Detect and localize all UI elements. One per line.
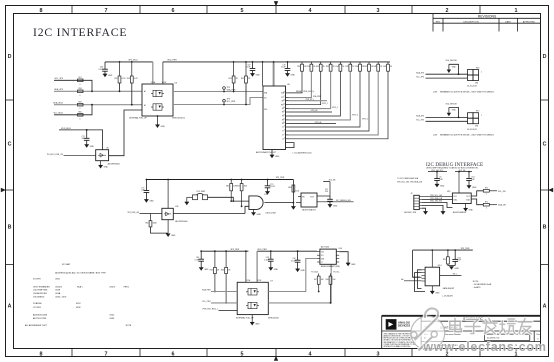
svg-text:0.1UF: 0.1UF	[246, 67, 251, 69]
svg-text:GND: GND	[90, 146, 95, 148]
svg-text:0: 0	[486, 207, 487, 209]
svg-text:SCL_3P3: SCL_3P3	[416, 76, 424, 78]
watermark chinese char 2	[467, 318, 479, 321]
svg-text:VCCB: VCCB	[257, 280, 261, 282]
wire wB gray	[211, 302, 237, 304]
svg-text:ADCMP600LE: ADCMP600LE	[175, 220, 188, 223]
svg-text:U8 IO EXPANDER: U8 IO EXPANDER	[33, 285, 50, 288]
svg-text:R53: R53	[127, 78, 130, 80]
resistor R54 pullup	[233, 62, 235, 76]
resistor R62	[230, 180, 232, 184]
resistor R38 pullup with staircase wire	[377, 62, 379, 64]
ground below C71	[144, 200, 148, 203]
wire P16 pin1	[426, 73, 468, 75]
wire P17 pin2	[426, 120, 468, 122]
wire rail4 to U7 VCCA	[245, 251, 247, 282]
svg-text:GND: GND	[452, 66, 457, 68]
capacitor C49	[200, 251, 202, 259]
svg-text:GND: GND	[452, 110, 457, 112]
svg-text:0X4F: 0X4F	[110, 318, 116, 320]
svg-text:SDA_3P3: SDA_3P3	[416, 71, 424, 74]
svg-text:R55: R55	[241, 78, 244, 80]
capacitor C67	[252, 62, 254, 69]
ground below C49	[199, 268, 203, 271]
and gate U12	[249, 196, 263, 210]
svg-text:SDA_PER: SDA_PER	[227, 89, 236, 92]
wire rail5 to U7 VCCB gray	[256, 251, 258, 282]
capacitor C73	[267, 180, 269, 186]
power arrow P16	[449, 64, 459, 74]
svg-text:R67: R67	[314, 279, 317, 281]
svg-text:NTB0102GD: NTB0102GD	[268, 318, 279, 320]
sheet zone tick marks left/right	[6, 99, 14, 101]
svg-text:PER_INT_L: PER_INT_L	[306, 99, 315, 101]
svg-text:2: 2	[446, 8, 449, 14]
svg-text:DNI: DNI	[475, 83, 479, 85]
svg-text:SCL2: SCL2	[466, 196, 470, 198]
svg-text:3P3_PER: 3P3_PER	[461, 248, 470, 250]
wire U8 pin9	[289, 123, 337, 125]
svg-text:SCL_PER: SCL_PER	[202, 301, 211, 303]
svg-text:<- I2C ADDR: <- I2C ADDR	[442, 294, 454, 297]
svg-text:GPIO_5: GPIO_5	[362, 118, 368, 120]
ground below C47	[328, 205, 332, 208]
ground below C67	[250, 74, 254, 77]
wire rail2 to U8 VDD1	[262, 62, 264, 86]
resistor R58	[78, 90, 84, 93]
svg-text:PG_MCU_PER_ON: PG_MCU_PER_ON	[47, 154, 64, 156]
svg-text:SCL_3P3: SCL_3P3	[54, 78, 63, 80]
svg-text:7: 7	[105, 351, 108, 357]
svg-text:1UF: 1UF	[141, 190, 144, 192]
svg-text:DESCRIPTION: DESCRIPTION	[464, 21, 479, 23]
svg-text:0X30 - 0X37: 0X30 - 0X37	[55, 296, 67, 298]
svg-text:3: 3	[377, 8, 380, 14]
svg-text:D: D	[543, 54, 547, 60]
svg-text:ADM1032ARMZ (DNI): ADM1032ARMZ (DNI)	[321, 265, 340, 268]
wire rail3 drop to U13	[292, 180, 294, 207]
temp sensor U10	[320, 249, 336, 264]
resistor R35 pullup with staircase wire	[349, 62, 351, 64]
capacitor C50	[297, 251, 299, 260]
wire w3 SCL gray	[54, 104, 142, 106]
svg-text:3P3_PER: 3P3_PER	[230, 249, 239, 251]
svg-text:GND: GND	[274, 269, 279, 271]
svg-text:0: 0	[80, 84, 81, 86]
svg-text:TWI_SCL_DB, TWI_SDA_DB: TWI_SCL_DB, TWI_SDA_DB	[397, 181, 423, 184]
svg-text:GND: GND	[469, 210, 474, 212]
svg-text:R65: R65	[210, 269, 213, 271]
wire rail1 to U6 VCCA	[152, 62, 154, 84]
watermark diagonal stroke 2	[419, 336, 434, 351]
wire rail6 left drop	[413, 250, 420, 277]
svg-text:6: 6	[172, 351, 175, 357]
ground below C52	[467, 186, 471, 189]
wire to U15 vdd gray	[458, 172, 460, 193]
wire U5 output	[109, 110, 142, 156]
wire U8 pin3	[289, 100, 328, 102]
svg-text:GND: GND	[333, 206, 338, 208]
svg-text:RESET_PER_MCU_L: RESET_PER_MCU_L	[296, 91, 315, 93]
header P17	[468, 113, 474, 119]
svg-text:R54: R54	[228, 78, 231, 80]
svg-text:10-31-2013: 10-31-2013	[467, 129, 477, 131]
watermark chinese char 3	[483, 321, 497, 324]
wire J2 pin2	[422, 199, 453, 201]
svg-text:P17: P17	[476, 111, 479, 113]
title block doc box	[484, 334, 529, 340]
capacitor C66	[104, 62, 106, 69]
svg-text:R60: R60	[78, 112, 81, 114]
wire w5 SDA_PER gray	[173, 91, 263, 93]
ground right of U10	[346, 263, 350, 266]
wire w4	[54, 105, 92, 115]
io expander U8	[263, 86, 286, 150]
svg-text:LTC4311: LTC4311	[33, 307, 42, 309]
svg-text:A: A	[8, 304, 12, 310]
svg-text:10-31-2013: 10-31-2013	[467, 86, 477, 88]
ground below rail drop	[291, 207, 295, 210]
svg-text:5: 5	[241, 351, 244, 357]
sheet center arrow bottom	[274, 356, 278, 361]
svg-text:SCL_DB: SCL_DB	[498, 191, 506, 193]
svg-text:100K: 100K	[153, 223, 158, 225]
resistor R67 pullup	[318, 284, 320, 291]
svg-text:GND: GND	[301, 270, 306, 272]
svg-text:VDD_DB_3V3: VDD_DB_3V3	[430, 201, 442, 203]
svg-text:DNI: DNI	[475, 126, 479, 128]
U5 ground pin	[100, 161, 102, 166]
wire wC	[219, 309, 238, 311]
svg-text:U10 TEMP SNS: U10 TEMP SNS	[33, 290, 48, 292]
svg-text:VDD_PER: VDD_PER	[257, 249, 267, 251]
svg-text:- 0x4B76: - 0x4B76	[473, 287, 481, 289]
svg-text:GND: GND	[291, 75, 296, 77]
wire wA gray	[211, 291, 237, 293]
resistor R52 pullup	[119, 62, 121, 76]
svg-text:Document Number: Document Number	[445, 333, 461, 336]
svg-text:SCL_PER: SCL_PER	[227, 101, 236, 103]
svg-text:R39: R39	[383, 66, 386, 68]
svg-text:C: C	[8, 142, 12, 148]
resistor R37 pullup with staircase wire	[368, 62, 370, 64]
svg-text:1UF: 1UF	[81, 138, 84, 140]
svg-text:INTERNAL PULL UP: INTERNAL PULL UP	[129, 116, 147, 119]
svg-text:NOTE:: NOTE:	[473, 281, 479, 283]
svg-text:R36: R36	[355, 66, 358, 68]
svg-text:GND: GND	[161, 126, 166, 128]
svg-text:PU_SCL: PU_SCL	[333, 271, 339, 273]
svg-text:R4: R4	[282, 123, 284, 125]
capacitor C71	[145, 180, 147, 191]
wire U14 output	[440, 275, 462, 277]
svg-text:R34: R34	[336, 66, 339, 68]
svg-text:GEODE 5 PIN: GEODE 5 PIN	[404, 212, 417, 214]
watermark chinese char 5	[518, 320, 532, 323]
svg-text:I2C INTERFACE: I2C INTERFACE	[33, 26, 127, 39]
junction on w2	[91, 90, 93, 92]
svg-text:R62: R62	[226, 186, 229, 188]
svg-text:GND: GND	[104, 167, 109, 169]
svg-text:3P3_PER: 3P3_PER	[276, 177, 285, 179]
svg-text:NOTE: NOTE	[126, 325, 132, 327]
wire U8 pin6	[289, 111, 333, 113]
ground below C66	[103, 74, 107, 77]
svg-text:GND: GND	[171, 235, 176, 237]
svg-text:SCL: SCL	[264, 97, 267, 99]
U8 ground pin	[271, 150, 273, 156]
wire P17 pin1	[426, 116, 468, 118]
sheet center arrow right	[548, 188, 553, 192]
svg-text:REV: REV	[436, 21, 441, 23]
svg-text:ALL ADDRESSES 7-BIT: ALL ADDRESSES 7-BIT	[25, 324, 47, 327]
wire U15 out1	[471, 191, 483, 196]
svg-text:I2C_DEBUG_EN: I2C_DEBUG_EN	[336, 200, 351, 202]
resistor R33 pullup with staircase wire	[330, 62, 332, 64]
svg-text:GND: GND	[275, 156, 280, 158]
svg-text:C3: C3	[282, 138, 284, 140]
capacitor C72	[86, 130, 88, 138]
svg-text:0X58: 0X58	[55, 279, 59, 281]
wire rail3 to U11	[167, 180, 169, 209]
svg-text:7: 7	[105, 8, 108, 14]
wire J2 pin1	[422, 196, 453, 198]
svg-text:SDA_PER: SDA_PER	[202, 289, 211, 292]
address selector U14	[425, 267, 440, 286]
U7 ground pin	[251, 315, 253, 323]
watermark diagonal stroke	[415, 319, 437, 341]
ground left of R15	[185, 202, 189, 205]
svg-text:R63: R63	[236, 186, 239, 188]
debug level shifter U15	[452, 193, 471, 204]
resistor R57	[78, 79, 84, 82]
svg-text:- I2C ADDRESS 0x4B: - I2C ADDRESS 0x4B	[473, 283, 492, 286]
comparator U11	[162, 208, 173, 219]
svg-text:0.1UF: 0.1UF	[281, 67, 286, 69]
U8 jumper loop	[286, 143, 295, 148]
svg-text:R52: R52	[114, 78, 117, 80]
sheet center arrow left	[1, 188, 6, 192]
watermark note flag	[425, 308, 438, 320]
svg-text:0X0 B: 0X0 B	[110, 286, 116, 288]
wire J2 pin4	[422, 205, 443, 211]
title block frame	[382, 315, 541, 317]
wire w1	[54, 80, 92, 91]
svg-text:R1: R1	[282, 112, 284, 114]
ground J2 pin4	[441, 212, 445, 215]
header P16	[468, 70, 474, 76]
svg-text:ADT7420: ADT7420	[321, 246, 329, 249]
svg-text:D: D	[8, 54, 12, 60]
svg-text:SCL_3P3: SCL_3P3	[416, 120, 424, 122]
svg-text:TWI_SCL_DB: TWI_SCL_DB	[430, 195, 443, 197]
svg-text:0: 0	[80, 95, 81, 97]
svg-text:R64: R64	[288, 187, 291, 189]
wire rail2 to U6 VCCB	[162, 62, 164, 84]
level translator U6	[142, 84, 173, 116]
svg-text:5V0_GEODE: 5V0_GEODE	[446, 103, 458, 105]
svg-text:I2C MAP: I2C MAP	[62, 263, 71, 266]
wire P16 pin2	[426, 77, 468, 79]
wire U10 right pin to ground	[339, 252, 348, 263]
svg-text:0X4C: 0X4C	[110, 314, 116, 316]
svg-text:REVISIONS: REVISIONS	[478, 14, 497, 18]
wire VDD_DB	[428, 171, 447, 173]
svg-text:74LVC1G08: 74LVC1G08	[265, 212, 275, 214]
power rail 3P3_PER bottom	[201, 250, 248, 252]
resistor R55 pullup	[245, 62, 247, 76]
svg-text:SCL: SCL	[281, 97, 284, 99]
watermark small circle B	[431, 331, 437, 337]
power rail VDD_PER	[163, 61, 390, 63]
wire U11 output	[173, 213, 245, 215]
wire w2 SDA gray	[54, 90, 142, 92]
svg-text:R32: R32	[316, 66, 319, 68]
svg-text:SCL_MCU: SCL_MCU	[53, 113, 63, 115]
resistor R59	[78, 103, 84, 106]
svg-text:GND: GND	[455, 268, 460, 270]
svg-text:GPIO_2: GPIO_2	[332, 107, 338, 109]
svg-text:0X5F: 0X5F	[76, 307, 82, 309]
svg-text:GND: GND	[204, 269, 209, 271]
ADI logo	[386, 320, 396, 330]
svg-text:0: 0	[80, 108, 81, 110]
svg-text:INT_L: INT_L	[453, 273, 458, 275]
U15 ground pin	[465, 204, 467, 209]
svg-text:GND: GND	[257, 214, 262, 216]
wire VDD_DB2	[455, 171, 472, 173]
svg-text:0.1UF: 0.1UF	[195, 259, 200, 261]
wire J2 pin5	[422, 208, 426, 211]
rail junction dots	[119, 61, 121, 63]
svg-text:INT: INT	[282, 100, 284, 102]
svg-text:GND: GND	[108, 75, 113, 77]
svg-text:GND: GND	[256, 75, 261, 77]
svg-text:GND: GND	[440, 185, 445, 187]
svg-text:GND: GND	[255, 324, 260, 326]
svg-text:0.1UF: 0.1UF	[264, 259, 269, 261]
svg-text:0: 0	[486, 194, 487, 196]
resistor R34 pullup with staircase wire	[339, 62, 341, 64]
wire U15 out2	[471, 199, 483, 205]
watermark chinese char 4	[501, 321, 504, 330]
svg-text:R35: R35	[346, 66, 349, 68]
svg-text:SEPARATE I2C BUS FOR GEODE - O: SEPARATE I2C BUS FOR GEODE - ONLY USED F…	[440, 134, 494, 137]
test point TP3	[223, 87, 226, 90]
svg-text:DEVICES: DEVICES	[398, 324, 410, 328]
svg-text:0X50 B: 0X50 B	[55, 286, 62, 288]
wire R70 to label	[489, 190, 497, 192]
svg-text:R61: R61	[145, 223, 148, 225]
svg-text:4: 4	[309, 8, 312, 14]
svg-text:GND: GND	[472, 187, 477, 189]
svg-text:GND: GND	[435, 292, 440, 294]
wire R15 to gate input	[208, 197, 234, 201]
svg-text:CT: CT	[321, 262, 323, 264]
svg-text:8: 8	[40, 351, 43, 357]
svg-text:DATA SHUNT: DATA SHUNT	[443, 287, 456, 290]
svg-text:PER_RST_MCU_L: PER_RST_MCU_L	[203, 309, 218, 311]
svg-text:APPROVED: APPROVED	[523, 20, 536, 23]
buffer U13	[301, 193, 317, 207]
wire wD gray	[268, 259, 317, 292]
svg-text:5V0_GEODE: 5V0_GEODE	[446, 60, 458, 62]
svg-text:SDA_3P3: SDA_3P3	[416, 115, 424, 118]
svg-text:VCCB: VCCB	[162, 82, 166, 84]
svg-text:R0: R0	[282, 108, 284, 110]
resistor R61	[150, 214, 152, 221]
resistor R65 pullup	[214, 251, 216, 267]
svg-text:R37: R37	[364, 66, 367, 68]
power rail 3P3_PER mid	[146, 179, 293, 181]
ground J2 pin5	[423, 212, 427, 215]
U6 ground pin	[157, 116, 159, 125]
svg-text:ADP5589ACPZ-02-R7: ADP5589ACPZ-02-R7	[256, 151, 277, 154]
svg-text:C1: C1	[282, 131, 284, 133]
resistor R66 pullup	[225, 251, 227, 267]
resistor R32 pullup with staircase wire	[320, 62, 322, 64]
svg-text:GPIO_4: GPIO_4	[352, 114, 358, 116]
ground below C70	[285, 74, 289, 77]
ground below C72	[85, 145, 89, 148]
wire R71 to label	[489, 204, 497, 206]
svg-text:SCL: SCL	[321, 255, 324, 257]
wire into U11	[140, 213, 162, 215]
svg-text:6: 6	[172, 8, 175, 14]
svg-text:0.1UF: 0.1UF	[291, 260, 296, 262]
svg-text:PER 1: PER 1	[124, 286, 131, 288]
resistor R71	[483, 203, 489, 206]
svg-text:A0: A0	[401, 278, 403, 281]
svg-text:ADM1032 (DNI): ADM1032 (DNI)	[33, 313, 48, 316]
svg-text:R33: R33	[326, 66, 329, 68]
sheet zone tick marks top/bottom	[71, 6, 73, 14]
svg-text:R69: R69	[443, 259, 446, 261]
resistor R30 pullup with staircase wire	[301, 62, 303, 64]
svg-text:0.1UF: 0.1UF	[98, 69, 103, 71]
svg-text:0.1UF: 0.1UF	[270, 186, 276, 188]
svg-text:www.elecfans.com: www.elecfans.com	[422, 340, 546, 354]
svg-text:R66: R66	[221, 269, 224, 271]
svg-text:RST: RST	[281, 104, 284, 106]
svg-text:R15 JUMP: R15 JUMP	[197, 191, 206, 193]
svg-text:B: B	[8, 225, 12, 231]
svg-text:C0: C0	[282, 127, 284, 129]
ground below C5	[435, 184, 439, 187]
svg-text:5: 5	[241, 8, 244, 14]
junction on w3	[91, 104, 93, 106]
svg-text:SDA_DB: SDA_DB	[498, 204, 506, 207]
sheet center arrow top	[274, 1, 278, 6]
jumper arc	[197, 193, 204, 195]
svg-text:R3: R3	[282, 120, 284, 122]
resistor R69	[447, 250, 449, 257]
wire rail6 to U14	[431, 250, 433, 267]
resistor R39 pullup with staircase wire	[387, 62, 389, 64]
resistor R64	[292, 185, 295, 192]
U12 ground	[253, 209, 255, 212]
svg-text:3P3_MCU: 3P3_MCU	[128, 60, 138, 62]
watermark big circle	[411, 316, 445, 350]
svg-text:R57: R57	[78, 77, 81, 79]
wire into U5	[64, 155, 96, 157]
wire w6 SCL_PER gray	[173, 98, 263, 105]
svg-text:VDD: VDD	[321, 252, 324, 254]
resistor R68 pullup	[330, 284, 332, 303]
svg-text:U14 ADDR SEL: U14 ADDR SEL	[33, 292, 48, 295]
svg-text:SEPARATE I2C BUS FOR GEODE - O: SEPARATE I2C BUS FOR GEODE - ONLY USED F…	[440, 91, 494, 94]
svg-text:INTERNAL PULL UP: INTERNAL PULL UP	[236, 317, 254, 320]
